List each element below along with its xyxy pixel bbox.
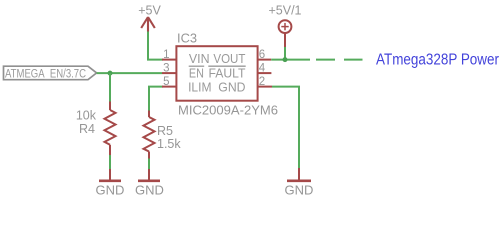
resistor R4 (105, 102, 116, 156)
svg-text:GND: GND (135, 183, 164, 198)
svg-text:EN: EN (189, 66, 204, 80)
svg-text:R5: R5 (157, 124, 173, 138)
svg-text:4: 4 (259, 62, 266, 74)
overline EN (189, 65, 205, 67)
op-amp U1 body: IC box (176, 46, 257, 100)
pin 1 stub (162, 59, 176, 61)
svg-text:+5V: +5V (138, 4, 161, 18)
wire tag to pin3 (97, 72, 162, 74)
wire R5 bottom to gnd (148, 159, 150, 170)
pin 2 stub (258, 86, 272, 88)
svg-text:1.5k: 1.5k (157, 137, 181, 151)
ground right (285, 168, 314, 198)
dashed net continuation (316, 59, 363, 61)
supply +5V/1 symbol (279, 20, 292, 47)
wire junction down to R4 (109, 73, 111, 101)
pin 3 stub (162, 72, 176, 74)
svg-text:IC3: IC3 (177, 31, 197, 45)
svg-text:ATMEGA_EN/3.7C: ATMEGA_EN/3.7C (5, 68, 86, 80)
overline FAULT (208, 65, 245, 67)
wire R5 top to pin5 (149, 87, 163, 111)
wire pin6 to node and right (271, 59, 310, 61)
svg-text:R4: R4 (79, 122, 95, 136)
svg-text:5: 5 (163, 76, 169, 88)
supply +5V symbol (141, 17, 155, 32)
wire R4 bottom to gnd (109, 155, 111, 169)
svg-text:10k: 10k (76, 109, 97, 123)
wire +5V to pin1 (148, 32, 163, 60)
svg-text:6: 6 (259, 49, 265, 61)
net tag ATMEGA_EN/3.7C (4, 66, 97, 80)
ground under R4 (96, 169, 125, 198)
pin 5 stub (162, 86, 176, 88)
svg-text:+5V/1: +5V/1 (268, 4, 301, 18)
pin 6 stub (258, 59, 272, 61)
svg-text:GND: GND (218, 80, 245, 94)
svg-text:VIN: VIN (189, 52, 210, 66)
svg-text:GND: GND (96, 183, 125, 198)
resistor R5 (144, 111, 155, 159)
node junction A (108, 71, 113, 76)
pin 4 stub (258, 72, 272, 74)
node junction B (283, 57, 288, 62)
svg-text:2: 2 (259, 76, 265, 88)
svg-text:GND: GND (285, 183, 314, 198)
ground under R5 (135, 169, 164, 198)
svg-text:MIC2009A-2YM6: MIC2009A-2YM6 (178, 104, 278, 118)
wire pin2 to right gnd (272, 87, 299, 168)
wire +5V/1 down to node (284, 47, 286, 60)
svg-text:ILIM: ILIM (188, 80, 211, 94)
svg-text:3: 3 (163, 62, 169, 74)
svg-text:VOUT: VOUT (213, 52, 245, 66)
svg-text:ATmega328P Power: ATmega328P Power (376, 51, 499, 68)
svg-text:FAULT: FAULT (209, 66, 246, 80)
svg-text:1: 1 (163, 49, 169, 61)
